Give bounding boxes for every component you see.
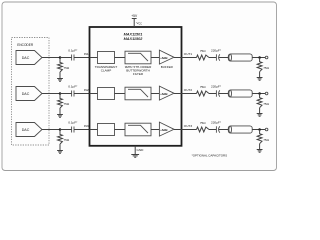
capacitor 0.1µF* ch1 — [72, 55, 74, 61]
svg-text:75Ω: 75Ω — [263, 102, 269, 106]
svg-text:CLAMP: CLAMP — [101, 69, 112, 73]
svg-text:GND: GND — [137, 148, 145, 152]
wire +5V to VCC pin — [133, 19, 135, 28]
transparent clamp block ch2 — [98, 88, 115, 100]
capacitor 0.1µF* ch3 — [72, 127, 74, 133]
svg-text:IN2: IN2 — [84, 88, 89, 92]
svg-text:75Ω: 75Ω — [63, 102, 69, 106]
resistor 75Ω series output ch1 — [197, 55, 210, 60]
wire DAC2 output to node — [42, 93, 60, 95]
svg-text:75Ω: 75Ω — [63, 138, 69, 142]
wire C to cable ch3 — [219, 129, 228, 131]
wire buffer to OUT3 pin — [174, 129, 182, 131]
svg-text:*OPTIONAL CAPACITORS: *OPTIONAL CAPACITORS — [192, 154, 228, 158]
svg-text:FILTER: FILTER — [133, 72, 144, 76]
wire OUT3 to series R — [182, 129, 197, 131]
svg-text:OUT2: OUT2 — [184, 88, 193, 92]
wire R to C ch1 — [209, 57, 216, 59]
svg-text:75Ω: 75Ω — [200, 121, 206, 125]
DAC 1 — [16, 51, 42, 65]
ground input termination ch2 — [57, 115, 63, 118]
ground GND pin — [131, 155, 139, 158]
buffer amp +6dB ch1 — [159, 50, 174, 64]
IC U1 MAX11501/MAX11502 box — [90, 27, 182, 146]
coax cable ch3 — [228, 126, 252, 133]
node junction input 2 — [59, 92, 62, 95]
buffer amp +6dB ch3 — [159, 122, 174, 136]
wire node to C ch3 — [60, 129, 72, 131]
wire filter to buffer ch2 — [151, 93, 160, 95]
wire IN3 to clamp — [90, 129, 98, 131]
svg-text:DAC: DAC — [22, 128, 30, 132]
encoder block (dashed) — [12, 38, 50, 146]
resistor 75Ω input termination ch3 — [58, 130, 63, 151]
resistor 75Ω load ch1 — [257, 58, 262, 78]
svg-text:220µF*: 220µF* — [211, 48, 222, 52]
coax cable ch2 — [228, 90, 252, 97]
node output junction ch2 — [258, 92, 261, 95]
resistor 75Ω series output ch3 — [197, 127, 210, 132]
wire IN2 to clamp — [90, 93, 98, 95]
wire DAC1 output to node — [42, 57, 60, 59]
svg-text:+6dB: +6dB — [160, 92, 168, 96]
svg-text:0.1µF*: 0.1µF* — [68, 121, 78, 125]
svg-text:75Ω: 75Ω — [263, 66, 269, 70]
svg-text:220µF*: 220µF* — [211, 120, 222, 124]
capacitor 0.1µF* ch2 — [72, 91, 74, 97]
resistor 75Ω load ch2 — [257, 94, 262, 114]
transparent clamp block ch1 — [98, 52, 115, 64]
wire node to C ch2 — [60, 93, 72, 95]
wire IN1 to clamp — [90, 57, 98, 59]
resistor 75Ω input termination ch2 — [58, 94, 63, 115]
svg-text:DAC: DAC — [22, 56, 30, 60]
svg-text:75Ω: 75Ω — [263, 138, 269, 142]
output connector terminal ch3 — [265, 128, 268, 131]
svg-text:MAX11502: MAX11502 — [124, 37, 144, 41]
DAC 3 — [16, 123, 42, 137]
output connector terminal ch2 — [265, 92, 268, 95]
wire C to cable ch1 — [219, 57, 228, 59]
wire clamp to filter ch2 — [115, 93, 126, 95]
filter block ch1 (9MHz 5th-order Butterworth) — [125, 51, 151, 64]
node junction input 3 — [59, 128, 62, 131]
svg-text:IN1: IN1 — [84, 52, 89, 56]
coax cable ch1 — [228, 54, 252, 61]
capacitor 220µF* ch1 — [215, 54, 217, 60]
resistor 75Ω load ch3 — [257, 130, 262, 150]
wire C to IN1 pin — [74, 57, 90, 59]
wire C to cable ch2 — [219, 93, 228, 95]
capacitor 220µF* ch2 — [215, 90, 217, 96]
ground output load ch2 — [257, 114, 263, 117]
resistor 75Ω series output ch2 — [197, 91, 210, 96]
wire clamp to filter ch3 — [115, 129, 126, 131]
node output junction ch3 — [258, 128, 261, 131]
wire R to C ch2 — [209, 93, 216, 95]
node output junction ch1 — [258, 56, 261, 59]
svg-text:IN3: IN3 — [84, 124, 89, 128]
wire filter to buffer ch3 — [151, 129, 160, 131]
wire GND pin down — [134, 146, 136, 154]
wire filter to buffer ch1 — [151, 57, 160, 59]
svg-text:75Ω: 75Ω — [200, 85, 206, 89]
svg-text:75Ω: 75Ω — [63, 66, 69, 70]
svg-text:OUT3: OUT3 — [184, 124, 193, 128]
filter block ch3 (9MHz 5th-order Butterworth) — [125, 123, 151, 136]
svg-text:MAX11501: MAX11501 — [124, 32, 143, 36]
svg-text:BUFFER: BUFFER — [161, 65, 174, 69]
wire buffer to OUT2 pin — [174, 93, 182, 95]
svg-text:0.1µF*: 0.1µF* — [68, 85, 78, 89]
svg-text:ENCODER: ENCODER — [17, 43, 34, 47]
wire DAC3 output to node — [42, 129, 60, 131]
wire clamp to filter ch1 — [115, 57, 126, 59]
transparent clamp block ch3 — [98, 124, 115, 136]
svg-text:+6dB: +6dB — [160, 56, 168, 60]
capacitor 220µF* ch3 — [215, 126, 217, 132]
wire OUT2 to series R — [182, 93, 197, 95]
filter block ch2 (9MHz 5th-order Butterworth) — [125, 87, 151, 100]
svg-text:+6dB: +6dB — [160, 128, 168, 132]
svg-text:OUT1: OUT1 — [184, 52, 193, 56]
wire cable to output node ch2 — [252, 93, 265, 95]
wire R to C ch3 — [209, 129, 216, 131]
DAC 2 — [16, 87, 42, 101]
ground output load ch3 — [257, 150, 263, 153]
wire C to IN2 pin — [74, 93, 90, 95]
wire buffer to OUT1 pin — [174, 57, 182, 59]
svg-text:+5V: +5V — [131, 14, 138, 18]
wire cable to output node ch3 — [252, 129, 265, 131]
buffer amp +6dB ch2 — [159, 86, 174, 100]
wire cable to output node ch1 — [252, 57, 265, 59]
wire C to IN3 pin — [74, 129, 90, 131]
wire OUT1 to series R — [182, 57, 197, 59]
svg-text:DAC: DAC — [22, 92, 30, 96]
node junction input 1 — [59, 56, 62, 59]
svg-text:220µF*: 220µF* — [211, 84, 222, 88]
resistor 75Ω input termination ch1 — [58, 58, 63, 79]
svg-text:0.1µF*: 0.1µF* — [68, 49, 78, 53]
ground output load ch1 — [257, 78, 263, 81]
ground input termination ch1 — [57, 79, 63, 82]
ground input termination ch3 — [57, 151, 63, 154]
output connector terminal ch1 — [265, 56, 268, 59]
svg-text:VCC: VCC — [136, 21, 142, 26]
wire node to C ch1 — [60, 57, 72, 59]
svg-text:75Ω: 75Ω — [200, 49, 206, 53]
